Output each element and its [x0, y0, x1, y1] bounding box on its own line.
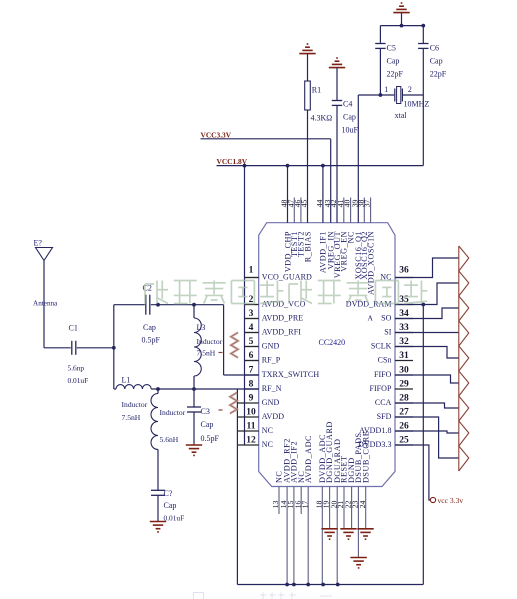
svg-text:RF_P: RF_P	[262, 356, 281, 365]
svg-text:7: 7	[249, 366, 254, 376]
svg-text:6: 6	[249, 351, 254, 361]
svg-text:8: 8	[249, 380, 254, 390]
svg-text:5.6nH: 5.6nH	[160, 435, 179, 444]
svg-text:24: 24	[358, 501, 367, 509]
svg-text:Cap: Cap	[164, 501, 177, 510]
svg-text:0.5pF: 0.5pF	[142, 336, 161, 345]
svg-text:CSn: CSn	[378, 356, 392, 365]
svg-text:Inductor: Inductor	[122, 400, 148, 409]
svg-text:A: A	[368, 314, 374, 323]
svg-text:22pF: 22pF	[430, 70, 447, 79]
svg-text:33: 33	[399, 323, 409, 333]
svg-text:L3: L3	[197, 323, 206, 332]
svg-text:Inductor: Inductor	[197, 337, 223, 346]
svg-text:Cap: Cap	[387, 57, 400, 66]
svg-text:3: 3	[249, 309, 254, 319]
svg-text:27: 27	[399, 408, 409, 418]
svg-text:Cap: Cap	[430, 57, 443, 66]
svg-text:10uF: 10uF	[342, 126, 359, 135]
svg-text:5: 5	[249, 337, 254, 347]
svg-text:2: 2	[408, 85, 412, 94]
svg-text:AVDD_RFI: AVDD_RFI	[262, 328, 302, 337]
svg-text:31: 31	[399, 351, 409, 361]
svg-text:AVDD_VCO: AVDD_VCO	[262, 300, 306, 309]
svg-text:10MHZ: 10MHZ	[404, 100, 430, 109]
svg-text:R1: R1	[312, 86, 321, 95]
svg-text:FIFOP: FIFOP	[369, 384, 392, 393]
svg-text:GND: GND	[262, 342, 280, 351]
svg-text:32: 32	[399, 337, 409, 347]
svg-text:22pF: 22pF	[387, 70, 404, 79]
svg-text:CC2420: CC2420	[319, 338, 346, 347]
svg-text:R_BIAS: R_BIAS	[303, 231, 312, 262]
svg-text:C5: C5	[387, 44, 396, 53]
svg-text:RF_N: RF_N	[262, 384, 282, 393]
svg-text:SO: SO	[381, 314, 391, 323]
svg-text:AVDD_PRE: AVDD_PRE	[262, 314, 304, 323]
svg-text:9: 9	[249, 394, 254, 404]
svg-text:11: 11	[247, 422, 256, 432]
svg-text:1: 1	[384, 85, 388, 94]
svg-text:AVDD: AVDD	[262, 412, 285, 421]
svg-text:FIFO: FIFO	[374, 370, 392, 379]
svg-text:NC: NC	[262, 426, 273, 435]
svg-text:xtal: xtal	[395, 111, 408, 120]
svg-text:26: 26	[399, 422, 409, 432]
svg-text:28: 28	[399, 394, 409, 404]
svg-text:AVDD_XOSC1N: AVDD_XOSC1N	[366, 231, 375, 295]
svg-text:36: 36	[399, 266, 409, 276]
svg-text:Antenna: Antenna	[33, 300, 58, 308]
svg-text:30: 30	[399, 366, 409, 376]
svg-text:E?: E?	[34, 239, 43, 248]
svg-text:Cap: Cap	[343, 113, 356, 122]
svg-text:37: 37	[363, 200, 372, 208]
svg-text:34: 34	[399, 309, 409, 319]
svg-text:VCC3.3V: VCC3.3V	[201, 130, 232, 139]
svg-text:7.5nH: 7.5nH	[122, 413, 141, 422]
svg-text:AVDD_ADC: AVDD_ADC	[304, 435, 313, 483]
svg-text:0.01uF: 0.01uF	[68, 376, 89, 385]
svg-text:29: 29	[399, 380, 409, 390]
svg-text:C1: C1	[69, 324, 78, 333]
svg-text:0.01uF: 0.01uF	[164, 513, 185, 522]
svg-text:17: 17	[300, 501, 309, 509]
svg-text:SFD: SFD	[377, 412, 392, 421]
svg-text:C?: C?	[164, 489, 173, 498]
svg-text:Cap: Cap	[143, 323, 156, 332]
svg-text:TXRX_SWITCH: TXRX_SWITCH	[262, 370, 320, 379]
svg-text:0.5pF: 0.5pF	[201, 434, 220, 443]
svg-text:1: 1	[249, 266, 254, 276]
svg-text:Inductor: Inductor	[160, 408, 186, 417]
svg-text:10: 10	[246, 408, 256, 418]
svg-text:vcc 3.3v: vcc 3.3v	[438, 496, 464, 505]
svg-text:5.6np: 5.6np	[68, 364, 85, 373]
svg-text:25: 25	[399, 436, 409, 446]
svg-text:C4: C4	[343, 100, 352, 109]
svg-text:C3: C3	[201, 407, 210, 416]
svg-text:45: 45	[300, 200, 309, 208]
svg-text:Cap: Cap	[201, 420, 214, 429]
svg-text:C6: C6	[430, 44, 439, 53]
svg-text:CCA: CCA	[375, 398, 392, 407]
svg-text:12: 12	[246, 436, 256, 446]
svg-text:GND: GND	[262, 398, 280, 407]
svg-text:L1: L1	[122, 375, 131, 384]
svg-text:7.5nH: 7.5nH	[197, 349, 216, 358]
svg-text:SCLK: SCLK	[371, 342, 392, 351]
svg-text:AVDD1.8: AVDD1.8	[359, 426, 391, 435]
svg-text:4: 4	[249, 323, 254, 333]
svg-text:VCO_GUARD: VCO_GUARD	[262, 273, 312, 282]
svg-text:NC: NC	[262, 440, 273, 449]
svg-text:SI: SI	[384, 328, 391, 337]
svg-text:4.3KΩ: 4.3KΩ	[311, 114, 333, 123]
svg-text:DVDD3.3: DVDD3.3	[358, 440, 391, 449]
svg-text:DSUB_CORE: DSUB_CORE	[361, 431, 370, 483]
